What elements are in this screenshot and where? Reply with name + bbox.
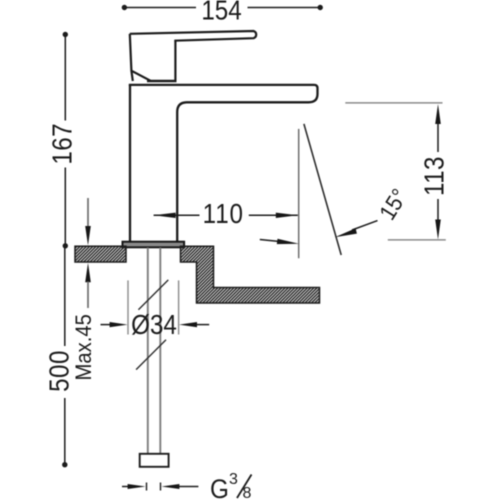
faucet lever bbox=[130, 31, 256, 41]
pipe break mark upper bbox=[138, 280, 168, 310]
label G 3/8 bbox=[210, 475, 229, 500]
dim Max.45 arrow down bbox=[85, 226, 91, 246]
svg-text:113: 113 bbox=[420, 156, 450, 196]
angle leader left bbox=[260, 240, 281, 242]
svg-text:110: 110 bbox=[203, 200, 244, 230]
svg-text:167: 167 bbox=[48, 123, 78, 165]
dim 113 arrow up bbox=[435, 104, 441, 124]
dim G3/8 line left bbox=[122, 486, 129, 488]
angle leader left arrow bbox=[277, 239, 299, 244]
angle leader right bbox=[352, 221, 378, 230]
dim 154 dot right bbox=[318, 5, 323, 10]
dim Max.45 arrow up bbox=[85, 263, 91, 283]
dim 110 arrow right bbox=[276, 213, 298, 218]
dim 113 ext line bottom bbox=[388, 239, 446, 241]
svg-text:G: G bbox=[210, 475, 229, 500]
svg-text:Max.45: Max.45 bbox=[72, 314, 96, 380]
countertop right stepped section bbox=[181, 246, 320, 303]
supply pipe right bbox=[159, 248, 161, 455]
dim Max.45 leader line upper bbox=[87, 198, 89, 227]
dim 113 line bbox=[437, 118, 439, 226]
dim 500 dot bottom bbox=[62, 462, 67, 467]
supply pipe left bbox=[147, 248, 149, 455]
dim Ø34 arrow left bbox=[110, 322, 128, 327]
angle leader right arrow bbox=[335, 228, 357, 237]
dim 167 line bbox=[64, 35, 66, 246]
base plate bbox=[123, 242, 185, 248]
dim G3/8 arrow left-pointing bbox=[161, 484, 179, 489]
dim 154 dot left bbox=[122, 5, 127, 10]
svg-text:Ø34: Ø34 bbox=[131, 311, 177, 341]
handle bottom bbox=[147, 80, 177, 82]
pipe break mark lower bbox=[136, 340, 166, 370]
dim 113 arrow down bbox=[435, 220, 441, 240]
dim Max.45 leader line lower bbox=[87, 282, 89, 309]
dim 167 dot bottom bbox=[63, 243, 68, 248]
dim G3/8 line right bbox=[176, 486, 198, 488]
dim G3/8 tick left bbox=[146, 483, 148, 491]
dim 110 arrow left bbox=[154, 213, 176, 218]
faucet handle post bbox=[130, 34, 176, 81]
water stream vertical line bbox=[298, 129, 300, 258]
G3/8 connector bbox=[140, 454, 169, 467]
svg-text:8: 8 bbox=[243, 485, 252, 500]
countertop left section bbox=[75, 246, 126, 262]
svg-text:154: 154 bbox=[201, 0, 241, 26]
svg-text:3: 3 bbox=[229, 471, 238, 488]
dim Ø34 ext line left bbox=[127, 280, 129, 334]
dim G3/8 tick right bbox=[160, 483, 162, 491]
dim 154 line bbox=[124, 7, 320, 9]
dim 110 line bbox=[154, 214, 298, 216]
svg-text:500: 500 bbox=[45, 350, 75, 392]
dim 113 ext line top bbox=[345, 102, 442, 104]
dim Ø34 line right bbox=[195, 324, 209, 326]
dim Ø34 ext line right bbox=[178, 280, 180, 334]
dim 500 line bbox=[64, 246, 66, 465]
dim 167 dot top bbox=[63, 32, 68, 37]
dim G3/8 arrow right-pointing bbox=[128, 484, 146, 489]
faucet body left edge bbox=[129, 85, 131, 242]
water stream 15deg line bbox=[304, 124, 341, 255]
dim Ø34 line left bbox=[101, 324, 112, 326]
faucet body top bbox=[129, 85, 318, 242]
dim Ø34 arrow right bbox=[179, 322, 197, 327]
